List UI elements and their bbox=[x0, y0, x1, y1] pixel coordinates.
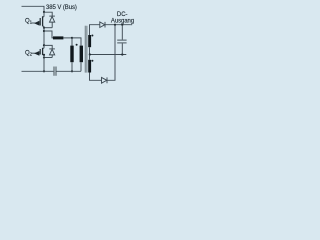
wire output end bbox=[131, 24, 132, 26]
wire secondary bottom to D2out bbox=[90, 73, 102, 81]
wire D1 top branch bbox=[44, 12, 52, 16]
diode D3 rectifier top bbox=[100, 22, 105, 28]
node center tap bbox=[89, 53, 91, 55]
transistor Q2 bbox=[32, 45, 45, 56]
node A bbox=[71, 37, 73, 39]
node Q2 drain bbox=[43, 44, 45, 46]
node take-off to L bbox=[43, 30, 45, 32]
wire bus+ top bbox=[22, 6, 45, 12]
node Q2 anode bbox=[43, 56, 45, 58]
wire secondary top to D1out bbox=[90, 25, 100, 35]
svg-text:385 V (Bus): 385 V (Bus) bbox=[46, 5, 77, 11]
wire Lm to bottom rail bbox=[71, 62, 73, 71]
wire primary bottom to rail bbox=[80, 62, 82, 71]
transformer T1 secondary winding bottom bbox=[88, 60, 91, 73]
wire node A to primary top bbox=[72, 38, 81, 46]
wire mid rail Q1->Q2 bbox=[43, 26, 45, 45]
node Q1 source bbox=[43, 27, 45, 29]
wire bottom rail left bbox=[22, 70, 54, 72]
inductor L (series resonant) bbox=[53, 36, 63, 39]
wire node A down to Lm bbox=[71, 38, 73, 46]
wire D4 cathode up to output plus bbox=[107, 25, 115, 81]
wire CT to secondary bottom bbox=[89, 55, 91, 60]
svg-text:Ausgang: Ausgang bbox=[111, 19, 134, 25]
node bus/Q1 drain bbox=[43, 11, 45, 13]
node D2 join bbox=[114, 24, 116, 26]
node cap bottom / CT bbox=[121, 53, 123, 55]
capacitor C2 output filter bbox=[117, 25, 126, 55]
node polarity dot secondary top bbox=[91, 35, 93, 37]
node Lm/rail bbox=[71, 70, 73, 72]
wire center tap bbox=[90, 47, 127, 54]
wire D2 top branch bbox=[44, 45, 52, 48]
diode D2 body of Q2 bbox=[49, 49, 55, 58]
diode D4 rectifier bottom bbox=[102, 77, 108, 83]
transformer T1 primary winding bbox=[80, 46, 83, 63]
transistor Q1 bbox=[32, 12, 45, 26]
node Q2/rail bbox=[43, 70, 45, 72]
transformer core bbox=[85, 26, 87, 73]
wire Q2 down to bottom rail bbox=[43, 55, 45, 71]
wire take-off jog bbox=[44, 31, 53, 38]
svg-text:Q2: Q2 bbox=[25, 50, 33, 56]
node polarity dot primary bbox=[76, 44, 78, 46]
capacitor C1 series resonant bbox=[54, 67, 56, 76]
node Q2 source bbox=[43, 54, 45, 56]
wire bottom rail right bbox=[57, 70, 82, 72]
wire L to node A bbox=[63, 37, 72, 39]
inductor Lm (magnetizing) bbox=[70, 46, 73, 63]
wire Q1 source/anode return bbox=[44, 27, 52, 29]
node polarity dot secondary bottom bbox=[91, 60, 93, 62]
svg-text:DC-: DC- bbox=[117, 12, 128, 18]
node output cap top bbox=[121, 24, 123, 26]
wire output plus bbox=[105, 24, 131, 26]
transformer T1 secondary winding top bbox=[88, 35, 91, 47]
svg-text:Q1: Q1 bbox=[25, 18, 33, 24]
diode D1 body of Q1 bbox=[49, 16, 55, 28]
wire Q2 anode return bbox=[44, 57, 52, 59]
